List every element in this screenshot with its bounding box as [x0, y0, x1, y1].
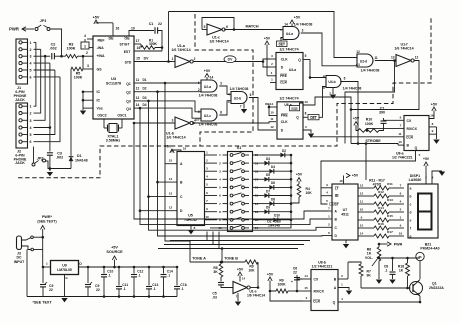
svg-text:R12: R12 — [378, 190, 384, 194]
AND gate U2-c 1/4 74HC08 — [201, 109, 217, 121]
svg-text:D9: D9 — [266, 206, 270, 210]
svg-text:+5V: +5V — [267, 273, 274, 277]
svg-text:1N4148: 1N4148 — [75, 159, 88, 163]
wire U4-a output — [301, 33, 356, 66]
node DV oval — [224, 56, 236, 63]
svg-text:3: 3 — [87, 64, 89, 68]
IC U8-a 1/2 74HC221 — [404, 116, 429, 151]
svg-text:LM78L05: LM78L05 — [57, 268, 72, 272]
svg-text:13: 13 — [136, 96, 140, 100]
svg-text:D4: D4 — [271, 165, 275, 169]
svg-text:.1: .1 — [167, 274, 170, 278]
ground pin of U7 — [345, 240, 347, 244]
wire U2-a out to U2-b in — [219, 86, 231, 94]
svg-text:5: 5 — [305, 54, 307, 58]
svg-text:6: 6 — [30, 75, 32, 79]
IC U5 74HC42 decoder — [177, 152, 205, 226]
svg-text:LA5680: LA5680 — [409, 178, 422, 182]
svg-text:1/4 74HC08: 1/4 74HC08 — [230, 87, 249, 91]
svg-text:14: 14 — [210, 76, 214, 80]
svg-text:.1: .1 — [181, 287, 184, 291]
svg-text:R10: R10 — [366, 118, 372, 122]
+5V arrow above display — [424, 162, 428, 166]
svg-text:CX: CX — [314, 278, 319, 282]
pin 9 ground — [429, 127, 437, 134]
svg-text:1/2 74HC74: 1/2 74HC74 — [279, 47, 298, 51]
svg-text:+5V: +5V — [111, 246, 118, 250]
jack J3 DC input — [17, 236, 22, 250]
svg-text:*SEE TEXT: *SEE TEXT — [32, 301, 52, 305]
svg-text:1/6 74HC14: 1/6 74HC14 — [209, 40, 228, 44]
svg-text:PRE: PRE — [281, 114, 289, 118]
diodes D2-D10 1N4148 — [261, 154, 281, 156]
svg-text:12: 12 — [360, 191, 364, 195]
wire into U1-b — [134, 122, 175, 124]
wire left vertical to U1-a input node — [168, 12, 170, 62]
wire buzzer to collector — [419, 261, 421, 279]
inverter U1-b 1/6 74HC14 — [175, 117, 190, 129]
svg-text:CLR: CLR — [280, 81, 287, 85]
svg-text:4: 4 — [84, 34, 86, 38]
svg-text:DV: DV — [144, 57, 149, 61]
svg-text:d: d — [410, 210, 412, 214]
svg-text:15: 15 — [304, 286, 308, 290]
svg-text:6: 6 — [226, 25, 228, 29]
net tag PWR — [387, 242, 391, 246]
svg-text:1: 1 — [30, 41, 32, 45]
svg-text:13: 13 — [360, 183, 364, 187]
svg-text:(SEE TEXT): (SEE TEXT) — [37, 220, 56, 224]
svg-text:Q: Q — [333, 301, 336, 305]
svg-text:12: 12 — [356, 50, 360, 54]
wire lower bus 1 — [206, 232, 208, 241]
svg-text:2: 2 — [86, 51, 88, 55]
capacitor C9b 22 — [87, 266, 90, 269]
svg-text:14: 14 — [169, 177, 173, 181]
svg-text:11: 11 — [360, 199, 364, 203]
seven segment digit — [418, 194, 432, 212]
svg-text:14: 14 — [360, 231, 364, 235]
IC U3 SC11878 DTMF decoder — [93, 36, 134, 119]
svg-text:+5V: +5V — [353, 117, 360, 121]
svg-text:U4-a: U4-a — [289, 68, 296, 72]
wire U4-b output to strobe line — [340, 82, 358, 144]
connector J1 6-pin phone jack — [16, 39, 28, 84]
svg-text:1/4 74HC08: 1/4 74HC08 — [199, 94, 218, 98]
svg-text:1/4 74HC08: 1/4 74HC08 — [361, 69, 380, 73]
svg-text:JP1: JP1 — [40, 19, 47, 23]
wire bus ladder 5 to TONE A — [164, 82, 167, 85]
svg-text:22: 22 — [158, 22, 162, 26]
svg-text:D3: D3 — [142, 96, 146, 100]
svg-text:D10: D10 — [274, 214, 280, 218]
svg-text:2: 2 — [194, 57, 196, 61]
crystal XTAL1 3.58MHz — [104, 127, 108, 129]
wire U1-a output DV line — [193, 61, 263, 63]
resistor R8 3K — [220, 261, 223, 264]
svg-text:Q1: Q1 — [126, 82, 131, 86]
svg-text:+5V: +5V — [294, 16, 301, 20]
svg-text:1/2 74HC221: 1/2 74HC221 — [312, 265, 333, 269]
svg-text:6: 6 — [344, 77, 346, 81]
wire PWR arrow — [22, 27, 26, 31]
svg-text:GS: GS — [97, 67, 103, 71]
svg-text:RX/CX: RX/CX — [407, 127, 418, 131]
wire DV to U4-a flip-flop CLK — [262, 60, 265, 63]
svg-text:EST: EST — [124, 50, 132, 54]
wire lower bus 3 — [218, 232, 220, 249]
svg-text:DET: DET — [310, 116, 316, 120]
svg-text:Q4: Q4 — [126, 107, 131, 111]
wire D3 to U2-c input 9 — [141, 101, 201, 112]
wire bus ladder 2 — [139, 107, 142, 110]
capacitor C9 22 input — [42, 266, 45, 269]
svg-text:PKM24-4A0: PKM24-4A0 — [420, 247, 439, 251]
svg-text:22: 22 — [96, 288, 100, 292]
svg-text:2: 2 — [30, 112, 32, 116]
svg-text:U4-b: U4-b — [328, 80, 335, 84]
net label DET — [277, 41, 288, 47]
svg-text:13: 13 — [304, 100, 308, 104]
svg-text:Q3: Q3 — [126, 100, 131, 104]
svg-text:12: 12 — [169, 206, 173, 210]
svg-text:.002: .002 — [49, 47, 56, 51]
svg-text:5: 5 — [204, 25, 206, 29]
svg-text:15: 15 — [360, 223, 364, 227]
ground for U3 input pins — [82, 92, 84, 110]
svg-text:11: 11 — [270, 117, 274, 121]
svg-text:11: 11 — [398, 132, 402, 136]
svg-text:22: 22 — [293, 271, 297, 275]
svg-text:+5V: +5V — [264, 37, 271, 41]
svg-text:U5: U5 — [188, 214, 193, 218]
connector J2 6-pin phone jack — [16, 103, 28, 148]
wire CLR tied high — [270, 291, 303, 301]
svg-text:+5V: +5V — [204, 69, 211, 73]
wire D1 to U2-a input 1 — [141, 82, 201, 84]
svg-text:.03: .03 — [212, 296, 217, 300]
svg-text:3: 3 — [220, 82, 222, 86]
svg-text:300K: 300K — [149, 42, 158, 46]
wire U2-d output to U1-f — [375, 60, 396, 62]
svg-text:17: 17 — [136, 39, 140, 43]
svg-text:4: 4 — [30, 62, 32, 66]
svg-text:TONE A: TONE A — [192, 257, 206, 261]
svg-text:PWR: PWR — [9, 27, 19, 32]
wire from JP1 to signal line — [50, 29, 62, 56]
inverter U1-c 1/6 74HC14 — [207, 24, 222, 35]
svg-text:CLK: CLK — [281, 57, 288, 61]
svg-text:OSC1: OSC1 — [117, 114, 126, 118]
svg-text:14: 14 — [304, 274, 308, 278]
svg-text:1/2 74HC74: 1/2 74HC74 — [279, 97, 298, 101]
svg-text:D1: D1 — [77, 154, 82, 158]
svg-text:CX: CX — [407, 119, 412, 123]
capacitor C5 .03 — [220, 277, 222, 282]
svg-text:16: 16 — [339, 179, 343, 183]
svg-text:m: m — [418, 255, 421, 259]
wire U1-b output to U6-a CLK — [192, 122, 195, 125]
dashed boundary inner — [195, 14, 253, 146]
svg-text:Q2: Q2 — [126, 91, 131, 95]
svg-text:a: a — [410, 186, 412, 190]
svg-text:5: 5 — [323, 86, 325, 90]
svg-text:R13: R13 — [387, 198, 393, 202]
pins 3 8 of display to supply — [425, 180, 427, 184]
AND gate U2-d 1/4 74HC08 — [357, 54, 373, 67]
svg-text:4: 4 — [323, 75, 325, 79]
pin OE — [128, 30, 130, 36]
ground pin 8 of U5 — [190, 226, 192, 230]
svg-text:6: 6 — [30, 140, 32, 144]
switch contacts of J3 — [22, 238, 32, 241]
pin 13 CLR top — [290, 106, 300, 111]
svg-text:D5: D5 — [266, 173, 270, 177]
svg-text:.1: .1 — [108, 274, 111, 278]
svg-text:-INA: -INA — [97, 46, 105, 50]
svg-text:7: 7 — [240, 105, 242, 109]
svg-text:D2: D2 — [282, 149, 286, 153]
svg-text:STROBE: STROBE — [365, 139, 381, 143]
svg-text:16: 16 — [116, 27, 120, 31]
svg-text:+5V: +5V — [165, 145, 172, 149]
svg-text:OE: OE — [124, 37, 130, 41]
svg-text:.1: .1 — [385, 269, 388, 273]
svg-text:U4-a: U4-a — [286, 32, 293, 36]
svg-text:IC: IC — [97, 90, 101, 94]
svg-text:D4: D4 — [142, 103, 146, 107]
svg-text:U2-a: U2-a — [204, 85, 211, 89]
svg-text:2N2222A: 2N2222A — [429, 286, 444, 290]
svg-text:16: 16 — [137, 46, 141, 50]
wire top rail from U1-c loop to U2-d — [169, 12, 358, 58]
svg-text:1: 1 — [30, 105, 32, 109]
svg-text:1/6 74HC14: 1/6 74HC14 — [394, 47, 413, 51]
svg-text:10: 10 — [399, 231, 403, 235]
svg-text:+5V: +5V — [237, 268, 244, 272]
svg-text:14: 14 — [270, 102, 274, 106]
svg-text:PWR: PWR — [394, 243, 403, 247]
svg-text:100K: 100K — [365, 122, 374, 126]
svg-text:100K: 100K — [66, 47, 75, 51]
svg-text:D1: D1 — [142, 78, 146, 82]
wire MATCH to U4-a input 1 — [281, 29, 283, 31]
wires U5 outputs to S1 — [205, 154, 211, 156]
svg-text:+5V: +5V — [423, 157, 430, 161]
svg-text:PWR*: PWR* — [42, 215, 53, 219]
svg-text:LE/ST: LE/ST — [329, 202, 338, 206]
svg-text:2: 2 — [30, 48, 32, 52]
dashed boundary outer snake — [18, 16, 431, 178]
svg-text:LT: LT — [335, 186, 339, 190]
svg-text:.1: .1 — [153, 287, 156, 291]
svg-text:3: 3 — [302, 29, 304, 33]
svg-text:13: 13 — [169, 192, 173, 196]
svg-text:Q: Q — [298, 58, 301, 62]
svg-text:1: 1 — [84, 45, 86, 49]
wire bus ladder 3 — [147, 100, 150, 103]
svg-text:STD: STD — [125, 60, 132, 64]
wire DV to U1-a — [167, 60, 170, 63]
svg-text:e: e — [410, 218, 412, 222]
svg-text:6: 6 — [250, 93, 252, 97]
resistor R5 100K — [82, 56, 84, 69]
svg-text:13: 13 — [391, 56, 395, 60]
net label DET output — [308, 115, 319, 120]
wire bus ladder 4 — [156, 90, 159, 93]
svg-text:9K: 9K — [367, 274, 372, 278]
wire DET up to U4-b gate input 5 — [319, 87, 326, 118]
svg-text:CLK: CLK — [281, 120, 288, 124]
svg-text:15: 15 — [136, 57, 140, 61]
wire DET net to U4-a input 2 — [281, 38, 283, 42]
bypass capacitors C10-C7A — [103, 266, 106, 269]
svg-text:RX/CX: RX/CX — [314, 290, 325, 294]
wire RX/CX to R10 node — [367, 128, 398, 130]
svg-text:BI: BI — [335, 194, 338, 198]
svg-text:D6: D6 — [271, 181, 275, 185]
svg-text:SC11878: SC11878 — [106, 82, 121, 86]
wire to regulator input — [43, 266, 51, 268]
svg-text:14: 14 — [284, 23, 288, 27]
svg-text:10: 10 — [205, 215, 209, 219]
svg-text:ST/GT: ST/GT — [120, 43, 131, 47]
svg-text:.1: .1 — [123, 287, 126, 291]
wire diode bus vertical — [261, 155, 292, 228]
svg-text:.002: .002 — [56, 156, 63, 160]
svg-text:JACK: JACK — [15, 161, 25, 165]
svg-text:c: c — [410, 202, 412, 206]
svg-text:3: 3 — [172, 119, 174, 123]
svg-text:VOL.: VOL. — [365, 256, 373, 260]
resistor R9 10K feedback — [245, 260, 258, 264]
wire bottom rail — [27, 296, 177, 298]
wire U1-e output — [250, 287, 258, 289]
svg-text:U2-d: U2-d — [360, 60, 367, 64]
wire U2-b output to U6-a D — [249, 98, 276, 131]
svg-text:PRE: PRE — [280, 74, 288, 78]
svg-text:5: 5 — [30, 69, 32, 73]
svg-text:8: 8 — [220, 111, 222, 115]
svg-text:D2: D2 — [142, 87, 146, 91]
wire base — [361, 287, 411, 289]
svg-text:11: 11 — [374, 56, 378, 60]
svg-text:R15: R15 — [387, 214, 393, 218]
svg-text:JACK: JACK — [15, 98, 25, 102]
svg-text:1/6 74HC14: 1/6 74HC14 — [171, 48, 190, 52]
svg-text:16: 16 — [430, 114, 434, 118]
svg-text:1/6 74HC14: 1/6 74HC14 — [247, 294, 265, 298]
svg-text:U2-c: U2-c — [204, 114, 211, 118]
svg-text:22: 22 — [49, 288, 53, 292]
svg-text:CLR: CLR — [291, 107, 298, 111]
wire CLR 13 to strobe corner — [310, 97, 351, 144]
capacitor C1 22 — [129, 29, 154, 32]
wire D4 to U2-c input 10 — [141, 108, 201, 118]
svg-text:1K: 1K — [399, 269, 404, 273]
AND gate U4-b 1/4 74HC08 — [326, 76, 341, 88]
svg-text:D3: D3 — [266, 157, 270, 161]
svg-text:5: 5 — [30, 133, 32, 137]
svg-text:14: 14 — [242, 277, 246, 281]
svg-text:+INA: +INA — [97, 54, 106, 58]
pin DE — [112, 23, 114, 36]
wire J2 pin1 down to JP2 — [33, 105, 35, 107]
wire U4-a AND out to U2-d in 13 — [356, 64, 357, 66]
svg-text:1: 1 — [172, 57, 174, 61]
svg-text:DET: DET — [279, 43, 285, 47]
svg-text:16: 16 — [183, 147, 187, 151]
wire strobe branch down — [365, 144, 367, 181]
wire D2 to U2-a input 2 — [141, 91, 201, 93]
wire JP2 to D1 and C3 node — [46, 161, 72, 169]
svg-text:10: 10 — [270, 111, 274, 115]
svg-text:11: 11 — [136, 78, 140, 82]
svg-text:10: 10 — [398, 140, 402, 144]
svg-text:Q: Q — [296, 116, 299, 120]
wire U2-c out to U2-b in — [219, 101, 231, 115]
svg-text:100K: 100K — [74, 76, 83, 80]
wire from U2-d node down to left — [345, 61, 395, 144]
svg-text:1/4 74HC08: 1/4 74HC08 — [199, 123, 218, 127]
wire U1-c feedback loop — [202, 29, 207, 31]
svg-text:OSC2: OSC2 — [97, 114, 106, 118]
svg-text:MATCH: MATCH — [245, 25, 258, 29]
svg-text:12: 12 — [415, 56, 419, 60]
wire Q to U4-b gate inputs — [310, 60, 326, 78]
ground above display — [432, 171, 442, 180]
svg-text:U7: U7 — [343, 208, 348, 212]
svg-text:3K: 3K — [213, 270, 218, 274]
svg-text:C1: C1 — [149, 22, 154, 26]
svg-text:10: 10 — [131, 27, 135, 31]
wires J2 pins up to J1 pins — [34, 42, 36, 106]
svg-text:10K: 10K — [248, 269, 255, 273]
svg-text:TONE B: TONE B — [224, 257, 238, 261]
svg-text:U3: U3 — [111, 76, 117, 81]
svg-text:+5V: +5V — [296, 173, 303, 177]
svg-text:R17: R17 — [387, 230, 393, 234]
pin 8 — [429, 126, 437, 128]
svg-text:CLR: CLR — [313, 300, 321, 304]
wire C2 R3 input line — [44, 55, 47, 58]
wire U1-f output down to strobe corner — [351, 61, 419, 110]
wire R18 to base — [407, 276, 409, 288]
svg-text:3: 3 — [30, 55, 32, 59]
IC U7 4511 decoder driver — [332, 184, 358, 240]
wire Q5 to U7 LE/ST — [321, 155, 416, 205]
svg-text:CLR: CLR — [406, 135, 414, 139]
svg-text:D8: D8 — [271, 197, 275, 201]
svg-text:4511: 4511 — [341, 213, 349, 217]
+5V wire to U6-a pins — [269, 107, 270, 116]
svg-text:14: 14 — [136, 103, 140, 107]
svg-text:+5V: +5V — [352, 174, 359, 178]
svg-text:+5V: +5V — [93, 16, 100, 20]
lower contact of J3 — [22, 246, 32, 250]
svg-text:10: 10 — [360, 207, 364, 211]
wire TONE A — [190, 261, 222, 263]
svg-text:Q1: Q1 — [432, 282, 437, 286]
svg-text:R16: R16 — [378, 222, 384, 226]
svg-text:SOURCE: SOURCE — [106, 250, 123, 254]
svg-text:REF: REF — [98, 39, 106, 43]
ground below C3 — [49, 169, 51, 172]
svg-text:+5V: +5V — [431, 103, 438, 107]
wire emitter to Q4 line — [419, 296, 421, 302]
wire bus ladder 1 — [133, 122, 136, 125]
svg-text:S1: S1 — [237, 146, 242, 150]
